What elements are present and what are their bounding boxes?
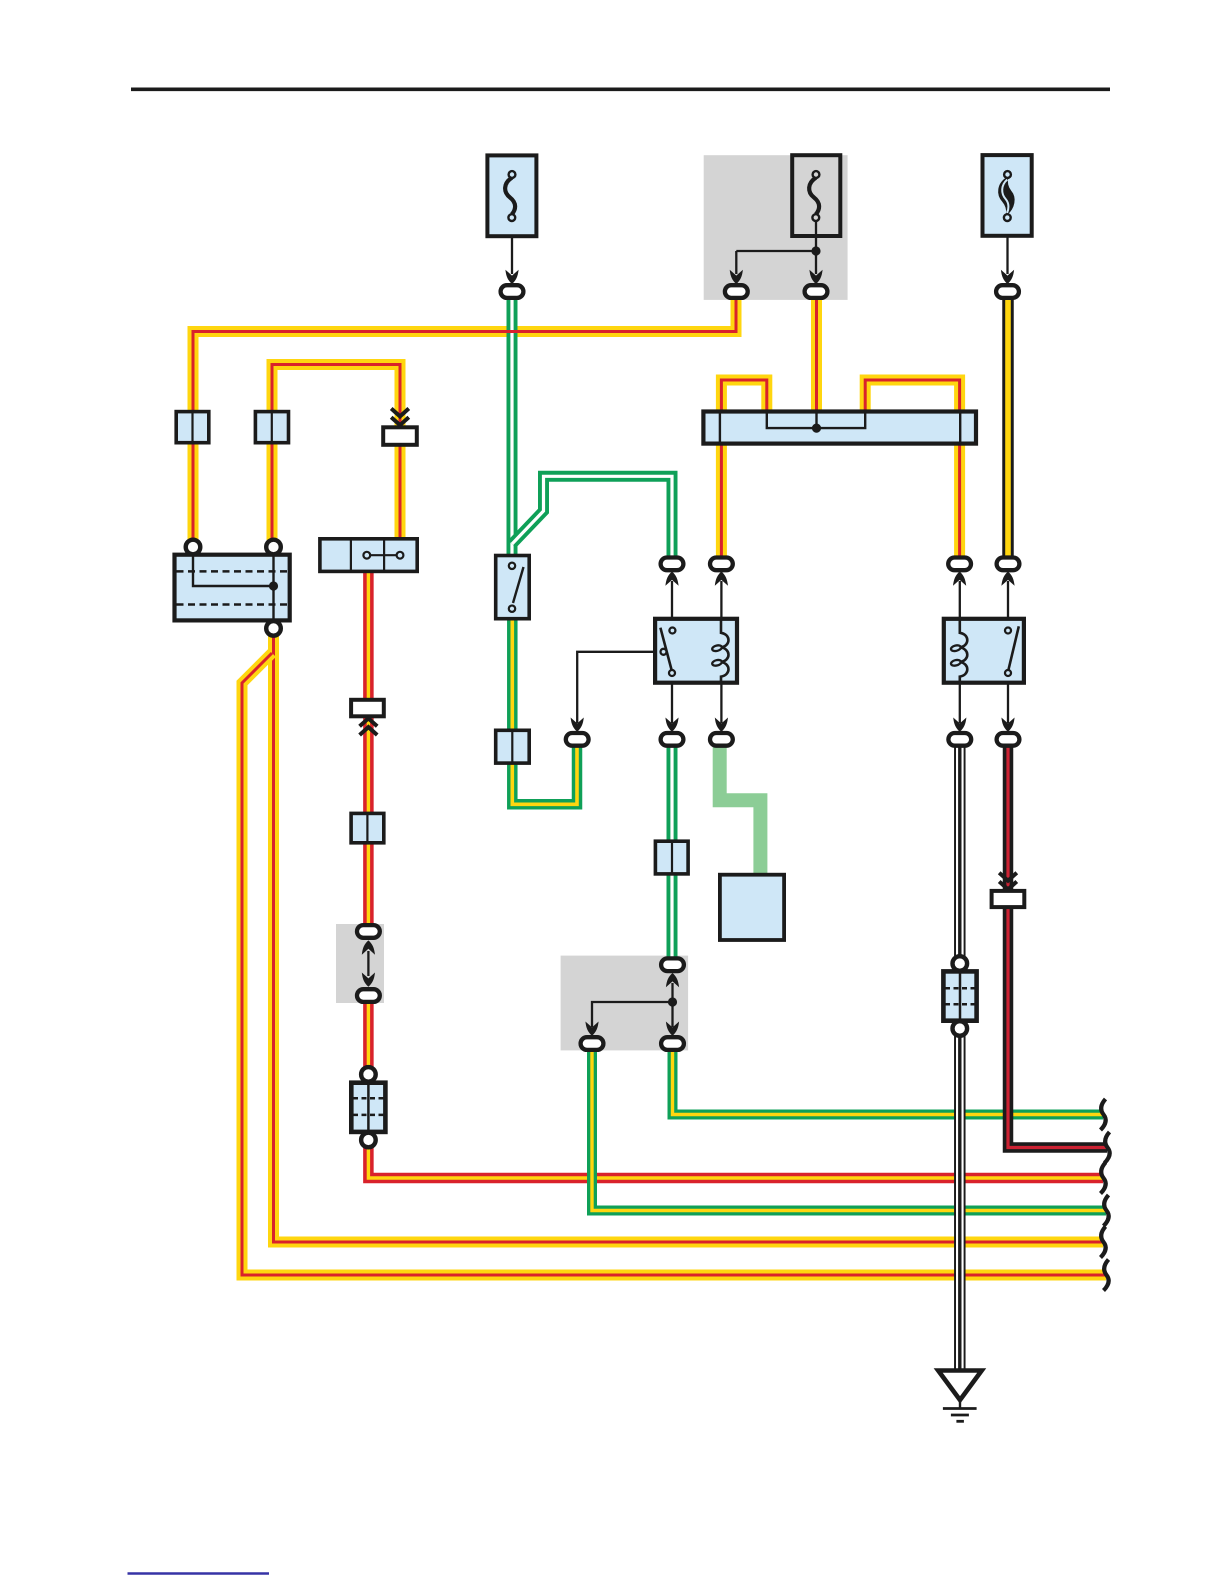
control module box [720,875,784,940]
wire B-R: relay 2 output to right edge [1008,744,1107,1148]
inline splice marker (chevrons + box) on H2 net [383,409,417,445]
oval K relay 1 pin 4 [710,733,733,746]
oval E relay 1 pin 1 [661,558,684,571]
arrow into oval Q [585,1022,598,1036]
fuse box 1 (blue) [487,155,536,236]
continuation squiggle wire 5 [1101,1227,1106,1258]
arrow into oval J [665,718,678,732]
continuation squiggle wire 1 [1101,1099,1106,1130]
connector box 5 on R-Y column [351,813,384,842]
wire Y-R loop: bar to relay 1 coil [721,380,766,558]
pin lines fuse 2 with junction node [736,220,820,274]
arrow pair in left gray box [362,940,375,986]
oval J relay 1 pin 3 [661,733,684,746]
ground symbol [938,1371,982,1422]
arrow into oval G [953,572,966,586]
arrow into oval M [1001,718,1014,732]
continuation squiggle wire 2 [1105,1132,1110,1163]
oval O connector pair bottom [357,989,380,1002]
wire R-Y: combination switch down the left column [368,565,1103,1178]
connector box 2 [255,412,288,443]
wire G-Y pair: lower gray junction to right edge [592,1048,1106,1211]
continuation squiggle wire 3 [1101,1163,1106,1194]
oval F relay 1 pin 2 [710,558,733,571]
connector box 4 on G-W wire [655,841,688,874]
continuation squiggle wire 4 [1104,1195,1109,1226]
gray shield box: engine room junction (top) [704,155,848,300]
oval M relay 2 pin 4 [997,733,1020,746]
grid connector box left column [351,1067,385,1147]
arrow into oval B [730,270,743,284]
oval B gray box left output [725,285,748,298]
arrow into oval D [1001,270,1014,284]
arrow into oval H [1001,572,1014,586]
oval G relay 2 pin 1 [948,558,971,571]
arrow into oval P [666,973,679,987]
grid connector box ground column [943,956,976,1036]
arrow into oval C [809,270,822,284]
oval H relay 2 pin 2 [997,558,1020,571]
wire Y-R net H2: junction block pin 2 to combination switch [272,365,400,546]
gray shield box: connector pair left column [336,924,384,1003]
pin lines relay 1 [672,581,721,723]
fuse box 2 (in gray box) [792,155,840,236]
inline splice marker (box + up chevrons) on R-Y column [351,700,384,735]
wire crossing: red stripe over green at (512,331) [503,330,522,333]
inline splice marker (chevrons + box) on B-R wire [992,873,1025,907]
connector box 1 (left) [176,412,209,443]
pin line fuse 1 [511,221,513,274]
arrow into oval I [571,718,584,732]
arrow into oval K [715,718,728,732]
oval Q lower junction output left [581,1037,604,1050]
control line: relay 1 contact to connector oval [577,652,660,723]
oval R lower junction output right [661,1037,684,1050]
wire B-Y: fusible link down to relay 2 [1002,299,1014,558]
pin lines relay 2 [960,581,1008,723]
oval I control contact [566,733,589,746]
wire Y-R net H1: gray box left oval to left connector column [193,300,736,540]
oval A fuse 1 output [501,285,524,298]
wire Y-R loop: bar to relay 2 [865,380,959,558]
relay 2 (coil + switch) [944,619,1024,683]
junction bar [703,412,976,444]
wire Y-R pair: junction block bottom to lower horizontals [242,635,1106,1275]
arrow into oval L [953,718,966,732]
relay 1 (switch + coil) [655,619,737,683]
oval D fusible link output [996,285,1019,298]
arrow into oval E [665,572,678,586]
oval C gray box right output [805,285,828,298]
junction block terminal circles [186,540,281,636]
oval N connector pair top [357,925,380,938]
header rule [131,88,1110,92]
wire G-W: fuse 1 down to switch, with branch to relay 1 [512,299,672,557]
fusible link box (blue) [983,155,1032,236]
wire Y-R center: gray box right oval down to junction bar dot [811,299,822,412]
oval P lower junction input [661,958,684,971]
junction lines in lower gray box [592,983,677,1027]
arrow into oval R [666,1022,679,1036]
switch box on green wire [496,556,530,619]
wire W-B: relay 2 to body ground [954,744,966,1372]
oval L relay 2 pin 3 [948,733,971,746]
arrow into oval F [715,572,728,586]
connector box 3 on Y-G wire [496,730,530,763]
connector pair lines in left gray box [367,951,369,976]
footer link rule [128,1572,270,1574]
gray shield box: lower junction connector [561,956,689,1051]
pin line fusible link [1006,221,1008,274]
junction block (dashed) [175,555,290,621]
wire light green: relay 1 to control module [720,744,761,876]
wire G-W: relay 1 output down to lower gray junction [667,744,678,959]
arrow into oval A [505,270,518,284]
combination switch box (3 cells) [320,539,417,572]
continuation squiggle wire 6 [1104,1260,1109,1291]
wire Y-G: switch to relay 1 contact oval [512,570,577,804]
